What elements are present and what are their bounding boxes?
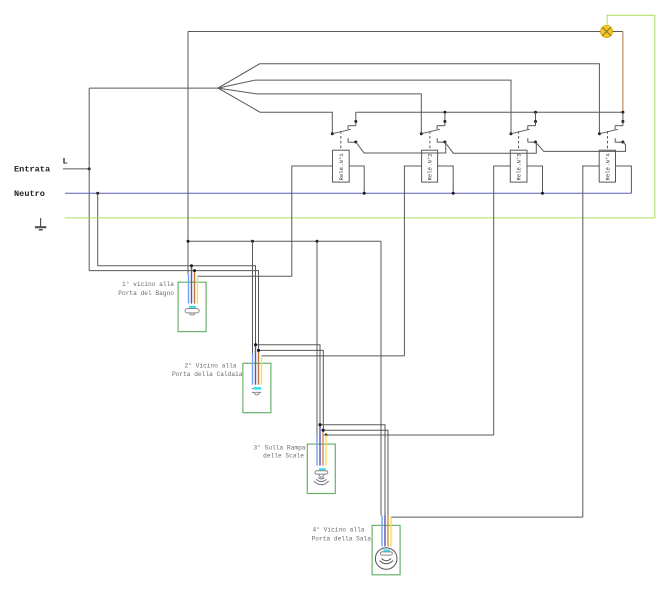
wire lamp return brown dropper x=622.9 [622, 32, 624, 113]
relay K2 coil left terminal wire [404, 166, 421, 356]
svg-text:4° Vicino alla: 4° Vicino alla [313, 527, 365, 534]
node neutral tap junction [96, 192, 99, 195]
wire S2 brown conductor [258, 350, 260, 384]
pushbutton station S4 enclosure [372, 525, 400, 574]
wire bus b1 S3 to S4 [320, 425, 385, 515]
relay K1 changeover contact [331, 112, 358, 143]
wire K1 contact output to K2 [356, 142, 446, 153]
wire S3 cyan conductor [316, 434, 318, 466]
relay K3 label Relè N°3 [516, 153, 523, 180]
wire S4 yellow bus to coil K4 [391, 516, 583, 518]
pushbutton S3 symbol with buzzer arcs [314, 470, 329, 485]
relay K1 coil box [333, 150, 350, 182]
relay K2 mechanical link (dashed) [429, 131, 431, 150]
svg-text:3° Sulla Rampa: 3° Sulla Rampa [254, 444, 306, 451]
wire Neutro blue bus [65, 192, 631, 194]
wire S4 brown conductor [387, 515, 389, 546]
svg-text:Entrata: Entrata [14, 165, 50, 175]
node neutral junction K1 [363, 192, 366, 195]
wire S1 yellow bus to coil K1 [198, 275, 292, 277]
wire L vertical riser/dropper x=89 [88, 88, 90, 271]
relay K4 mechanical link (dashed) [607, 131, 609, 150]
wire bus b2 S3 to S4 [323, 430, 388, 515]
wire S3 yellow conductor [325, 435, 327, 466]
wire live bus to S1 (b2) [89, 271, 258, 351]
wire S4 indigo conductor [384, 515, 386, 546]
svg-text:Porta della Sala: Porta della Sala [312, 536, 372, 543]
node rail junction K4 [621, 111, 624, 114]
wire S2 yellow conductor [261, 356, 263, 385]
svg-text:N°4: N°4 [604, 153, 611, 164]
wire S3 brown conductor [322, 430, 324, 465]
node S3 b1 junction [319, 423, 322, 426]
node lamp line junction x=317 [316, 240, 319, 243]
relay K1 label Relè N°1 [338, 153, 345, 181]
relay K1 coil right terminal wire to neutral [349, 166, 364, 193]
wire lamp line dropper to S2 [252, 241, 254, 353]
svg-text:1° vicino alla: 1° vicino alla [122, 281, 174, 288]
node rail junction K2 [443, 111, 446, 114]
wire S1 indigo conductor [191, 266, 193, 304]
svg-text:Porta della Caldaia: Porta della Caldaia [172, 371, 243, 378]
pushbutton S1 lamp-holder symbol [185, 307, 199, 315]
relay K4 coil left terminal wire [583, 166, 599, 517]
wire S3 indigo conductor [319, 425, 321, 466]
relay K2 coil box [422, 150, 438, 182]
wire S1 brown conductor [194, 271, 196, 304]
pushbutton station S3 enclosure [307, 444, 335, 493]
wire S4 cyan conductor [381, 515, 383, 546]
wire K3 contact output across K4 box [536, 142, 616, 151]
wire K4 contact output hook [616, 142, 626, 151]
wire S2 yellow bus to coil K2 [262, 355, 405, 357]
wire S3 yellow bus to coil K3 [326, 434, 494, 436]
node lamp line junction x=188 [187, 240, 190, 243]
wire bus b1 S2 to S3 [256, 345, 321, 425]
wire S1 cyan conductor [188, 274, 190, 303]
lamp E1 [601, 25, 613, 37]
svg-text:Relè: Relè [338, 167, 345, 180]
relay K2 changeover contact [420, 112, 447, 143]
node S3 b2 junction [322, 429, 325, 432]
wire S2 indigo conductor [255, 345, 257, 385]
node S2 b2 junction [257, 349, 260, 352]
wire L terminal stub [63, 168, 89, 170]
wire K2 contact output to K3 [445, 142, 536, 153]
relay K2 label Relè N°2 [427, 153, 434, 180]
node L junction [88, 167, 91, 170]
node S2 b1 junction [254, 343, 257, 346]
wire S2 cyan conductor [252, 354, 254, 385]
wire neutral bus to S1 (b1) [98, 266, 256, 345]
svg-text:N°1: N°1 [338, 153, 345, 164]
svg-text:Relè: Relè [427, 167, 434, 180]
wire bus b2 S2 to S3 [259, 350, 324, 430]
relay K4 coil right terminal wire to neutral [616, 166, 632, 193]
wire live feed to fan point y=88 [89, 87, 218, 89]
relay K2 coil right terminal wire to neutral [438, 166, 454, 193]
wire S1 yellow conductor [197, 276, 199, 303]
wire fan ray to relay K4 common [218, 64, 599, 134]
relay K4 label Relè N°4 [604, 153, 611, 181]
svg-text:Relè: Relè [604, 167, 611, 180]
wire lamp line vertical x=188 [187, 32, 189, 275]
wire neutral dropper x=97.7 [97, 193, 99, 266]
wire fan ray to relay K1 common [218, 88, 332, 134]
svg-text:delle Scale: delle Scale [263, 453, 304, 460]
relay K1 coil left terminal wire [292, 166, 333, 276]
wire lamp line dropper to S4 [380, 241, 382, 515]
ground symbol [35, 218, 46, 230]
svg-text:Porta del Bagno: Porta del Bagno [118, 290, 174, 297]
svg-text:2° Vicino alla: 2° Vicino alla [185, 363, 237, 370]
relay K3 coil right terminal wire to neutral [527, 166, 543, 193]
pushbutton station S2 enclosure [243, 363, 271, 412]
node S3 yellow junction [325, 434, 328, 437]
wire PE green conductor to lamp [65, 15, 655, 218]
wire lamp line dropper to S3 [316, 241, 318, 433]
pushbutton S4 round symbol [375, 548, 397, 570]
node rail junction K3 [534, 111, 537, 114]
svg-text:L: L [63, 157, 68, 167]
relay K1 mechanical link (dashed) [340, 131, 342, 150]
node neutral junction K2 [452, 192, 455, 195]
relay K4 changeover contact [598, 112, 625, 143]
node lamp line junction x=252.5 [251, 240, 254, 243]
wire fan ray to relay K2 common [218, 88, 421, 134]
relay K3 mechanical link (dashed) [518, 131, 520, 150]
svg-text:N°2: N°2 [427, 153, 434, 163]
node neutral junction K3 [541, 192, 544, 195]
pushbutton S2 symbol [252, 388, 261, 395]
svg-text:Relè: Relè [516, 167, 523, 180]
svg-text:Neutro: Neutro [14, 189, 45, 199]
wire fan ray to relay K3 common [218, 80, 511, 134]
wire NO contact rail y=112.2 [356, 111, 623, 113]
svg-text:N°3: N°3 [516, 153, 523, 163]
relay K3 changeover contact [510, 112, 538, 143]
pushbutton station S1 enclosure [178, 282, 206, 331]
wire lamp right stub [613, 31, 623, 33]
wire lamp feed top horizontal y=31.5 [188, 31, 601, 33]
wire lamp line horizontal y=241.3 [188, 240, 381, 242]
relay K4 coil box [599, 150, 615, 182]
relay K3 coil left terminal wire [494, 166, 511, 435]
relay K3 coil box [510, 150, 527, 182]
wire S4 yellow conductor [390, 517, 392, 546]
